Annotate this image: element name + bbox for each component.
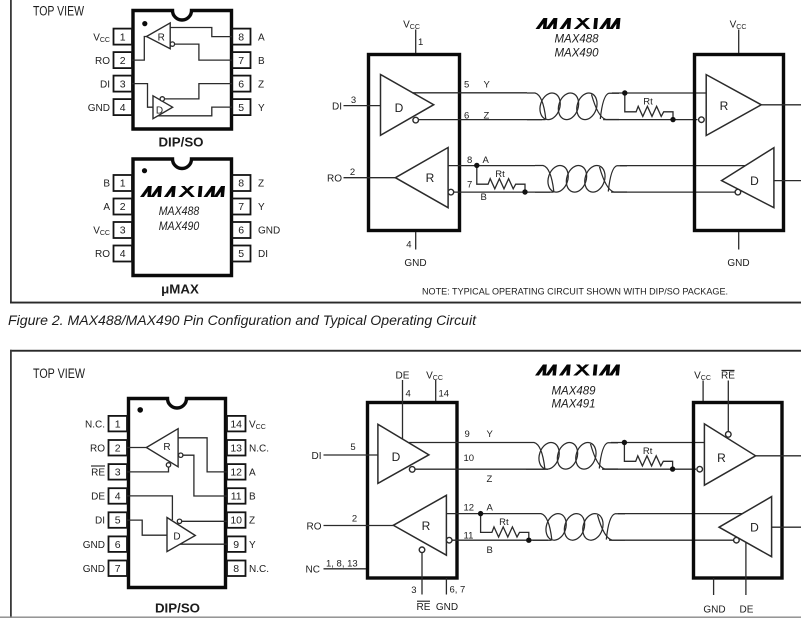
pin 3 box [114,76,133,92]
pin 4 box [114,246,133,262]
svg-text:μMAX: μMAX [161,282,199,297]
svg-text:GND: GND [703,604,725,615]
svg-text:Z: Z [487,474,493,485]
svg-text:VCC: VCC [403,20,420,32]
termination resistor Rt top [622,440,676,472]
IC box left MAX489 [368,403,458,579]
svg-text:RO: RO [90,443,105,454]
wire RO pin2 [127,447,148,449]
RE pin stub [727,381,729,432]
DE pin stub [402,380,404,439]
svg-text:8: 8 [467,155,472,166]
svg-text:DI: DI [100,79,110,90]
svg-text:GND: GND [727,258,749,269]
svg-text:VCC: VCC [426,370,443,382]
svg-text:12: 12 [230,467,242,479]
svg-text:GND: GND [83,540,105,551]
GND pin stub [738,232,740,250]
svg-text:B: B [487,545,493,556]
svg-text:D: D [395,101,404,115]
svg-text:MAX491: MAX491 [552,397,596,411]
svg-text:B: B [481,192,487,203]
wire RO output [344,177,396,179]
svg-text:10: 10 [230,515,242,527]
pin 3 box [109,464,128,480]
wire A left [448,165,535,167]
wire R output [761,104,801,106]
bubble on D output Z [177,519,181,523]
svg-text:GND: GND [83,564,105,575]
wire Y left [412,92,527,94]
svg-text:RO: RO [327,174,342,185]
svg-text:B: B [249,492,256,503]
pin 14 box [227,416,246,432]
RE overline right [722,369,735,371]
bubble on R1 input B [170,42,174,46]
wire Y right [611,442,705,444]
svg-text:MAX488: MAX488 [159,206,200,218]
svg-text:DI: DI [258,249,268,260]
pin 5 box [109,512,128,528]
svg-text:6, 7: 6, 7 [450,584,466,595]
receiver R triangle [393,495,446,555]
svg-text:B: B [258,56,265,67]
bubble on R enable [726,432,732,438]
frame bottom border [10,302,801,304]
svg-text:NC: NC [306,565,320,576]
svg-text:DIP/SO: DIP/SO [155,601,200,616]
svg-text:GND: GND [88,103,110,114]
wire D input [774,180,801,182]
pin-1 index dot [142,168,147,173]
bubble on R input B [179,453,183,457]
termination resistor Rt bottom [474,163,528,195]
pin 6 box [232,76,251,92]
svg-text:7: 7 [238,55,244,67]
svg-text:RO: RO [95,56,110,67]
svg-text:MAX488: MAX488 [555,31,599,45]
MAXIM logo on uMAX [140,186,225,197]
bubble on R input Z [697,466,703,472]
svg-text:N.C.: N.C. [249,564,269,575]
svg-text:N.C.: N.C. [249,443,269,454]
svg-text:Z: Z [258,179,264,190]
wire DE pin4 [127,496,172,520]
svg-text:VCC: VCC [694,371,711,383]
wire A left [446,513,533,515]
svg-text:GND: GND [436,602,458,613]
svg-text:14: 14 [230,418,242,430]
svg-text:6: 6 [115,539,121,551]
twisted pair Y/Z [526,440,618,472]
svg-text:5: 5 [350,442,355,453]
svg-text:R: R [158,32,165,43]
frame top border [10,350,801,352]
svg-text:A: A [258,32,265,43]
frame left border [10,0,12,303]
svg-text:12: 12 [464,503,475,514]
svg-text:1: 1 [418,37,423,48]
pin 9 box [227,536,246,552]
wire B left [452,539,548,541]
receiver R triangle right [704,424,755,485]
svg-text:RO: RO [95,249,110,260]
pin-1 index dot [137,407,143,413]
bubble on D output Z [413,117,419,123]
pin 4 box [109,488,128,504]
svg-text:6: 6 [238,225,244,237]
wire DI input [344,105,381,107]
IC box left MAX488 [369,55,460,231]
svg-text:Y: Y [258,103,265,114]
wire Z left [415,468,548,470]
svg-text:DE: DE [91,492,105,503]
driver D triangle right [722,148,774,208]
IC package U2 uMAX [133,159,232,276]
svg-text:11: 11 [464,531,474,542]
pin 8 box [232,29,251,45]
wire Y left [409,442,526,444]
svg-text:VCC: VCC [93,226,110,238]
svg-text:A: A [487,503,494,514]
VCC pin stub [738,30,740,54]
svg-text:Z: Z [258,79,264,90]
wire A pin8 [170,28,232,37]
wire DI pin5 [127,520,167,535]
pin 3 box [114,222,133,238]
svg-text:7: 7 [467,180,472,191]
svg-text:RE: RE [417,602,431,613]
svg-text:5: 5 [115,515,121,527]
pin 1 box [114,29,133,45]
svg-text:RE: RE [91,468,105,479]
svg-text:9: 9 [465,429,470,440]
svg-text:4: 4 [115,491,121,503]
svg-text:Z: Z [249,516,255,527]
driver D1 triangle [153,96,173,119]
svg-text:1: 1 [120,31,126,43]
pin 2 box [114,52,133,68]
wire NC [324,568,367,570]
VCC pin stub [435,380,437,401]
RE overline [91,465,105,467]
svg-text:Z: Z [484,110,490,121]
driver D triangle right [719,497,772,557]
svg-text:4: 4 [120,102,126,114]
receiver R1 triangle [147,23,171,49]
svg-text:VCC: VCC [730,20,747,32]
VCC pin stub [415,30,417,54]
twisted pair Y/Z [527,90,619,122]
bubble on D output B [734,537,740,543]
RE pin stub [421,553,423,595]
twisted pair A/B [535,163,627,195]
svg-text:5: 5 [238,102,244,114]
bubble on R enable [166,463,170,467]
driver D triangle [167,518,195,552]
pin numbers [115,418,242,575]
svg-text:GND: GND [404,258,426,269]
svg-text:R: R [717,451,726,465]
wire Z pin6 [165,84,233,99]
svg-text:2: 2 [352,513,357,524]
svg-text:3: 3 [120,78,126,90]
wire Z left [419,119,542,121]
pin 1 box [109,416,128,432]
svg-text:8: 8 [233,563,239,575]
wire B left [454,191,550,193]
svg-text:Y: Y [487,429,494,440]
termination resistor Rt bottom [478,511,532,543]
wire RE pin3 [127,467,169,472]
svg-text:2: 2 [120,55,126,67]
frame left border [10,350,12,618]
wire Z right [603,119,697,121]
wire R output [756,455,801,457]
svg-text:3: 3 [351,95,356,106]
svg-text:8: 8 [238,31,244,43]
pin 12 box [227,464,246,480]
wire DI pin3 [132,84,153,108]
svg-text:R: R [422,519,431,533]
wire A pin12 [178,438,227,472]
DE pin stub [745,543,747,596]
svg-text:R: R [426,171,435,185]
driver D triangle [378,424,429,483]
svg-text:1: 1 [120,178,126,190]
svg-text:DIP/SO: DIP/SO [158,134,203,149]
pin 5 box [232,99,251,115]
wire Y pin5 [158,107,232,116]
pin 2 box [114,199,133,215]
pin 6 box [109,536,128,552]
IC box right MAX489 [694,403,783,579]
wire Y right [612,92,706,94]
svg-text:Y: Y [484,79,491,90]
pin 11 box [227,488,246,504]
pin 2 box [109,440,128,456]
svg-text:DI: DI [95,516,105,527]
svg-text:DE: DE [740,604,754,615]
svg-text:Figure 2. MAX488/MAX490 Pin Co: Figure 2. MAX488/MAX490 Pin Configuratio… [8,313,477,328]
svg-text:D: D [173,531,180,542]
svg-text:RE: RE [721,371,735,382]
pin 13 box [227,440,246,456]
svg-text:A: A [483,155,490,166]
pin numbers left [120,31,126,114]
svg-text:1, 8, 13: 1, 8, 13 [326,559,358,570]
pin 5 box [232,246,251,262]
svg-text:VCC: VCC [249,419,266,431]
wire B right [611,191,735,193]
wire A right [618,513,742,515]
svg-text:9: 9 [233,539,239,551]
pin numbers [120,178,245,261]
wire DI input [324,454,378,456]
svg-text:MAX490: MAX490 [159,221,200,233]
MAXIM logo [535,365,620,376]
svg-text:B: B [103,179,110,190]
pin 6 box [232,222,251,238]
bubble on R input Z [699,117,705,123]
pin 7 box [232,52,251,68]
svg-text:DI: DI [332,101,342,112]
svg-text:GND: GND [258,226,280,237]
wire B pin11 [183,455,227,496]
bubble on D1 output Z [160,97,164,101]
svg-text:D: D [750,521,759,535]
svg-text:5: 5 [464,79,469,90]
svg-text:TOP VIEW: TOP VIEW [33,366,85,381]
svg-text:RO: RO [307,521,322,532]
termination resistor Rt top [622,90,676,122]
wire D input [772,526,801,528]
svg-text:3: 3 [115,467,121,479]
svg-text:6: 6 [464,110,469,121]
pin-1 index dot [142,21,147,26]
svg-text:3: 3 [411,585,416,596]
svg-text:4: 4 [406,239,411,250]
svg-text:13: 13 [230,442,242,454]
pin 7 box [109,561,128,577]
svg-text:DE: DE [396,370,410,381]
bubble on R input B [446,537,452,543]
svg-text:7: 7 [238,201,244,213]
frame bottom border [0,617,801,618]
svg-text:Y: Y [258,202,265,213]
svg-text:6: 6 [238,78,244,90]
svg-text:A: A [249,468,256,479]
svg-text:4: 4 [120,248,126,260]
GND pin stub [713,578,715,595]
VCC pin stub [702,381,704,402]
bubble on D output B [735,189,741,195]
svg-text:8: 8 [238,178,244,190]
wire RO output [324,525,394,527]
receiver R triangle [395,148,448,208]
svg-text:1: 1 [115,418,121,430]
driver D triangle [381,75,434,136]
bubble on D output Z [409,467,415,473]
pin 8 box [232,175,251,191]
svg-text:7: 7 [115,563,121,575]
pin numbers right [238,31,244,114]
IC package U1 DIP/SO 8-pin [133,11,232,130]
bubble on R enable [419,547,425,553]
pin 1 box [114,175,133,191]
svg-text:4: 4 [406,388,411,399]
svg-text:5: 5 [238,248,244,260]
pin 10 box [227,512,246,528]
svg-text:N.C.: N.C. [85,419,105,430]
svg-text:2: 2 [350,167,355,178]
twisted pair A/B [533,511,625,543]
svg-text:11: 11 [231,491,242,503]
wire Z right [602,468,696,470]
wire A right [620,165,745,167]
GND pin stub [445,578,447,595]
svg-text:2: 2 [120,201,126,213]
svg-text:3: 3 [120,225,126,237]
svg-text:NOTE: TYPICAL OPERATING CIRCU: NOTE: TYPICAL OPERATING CIRCUIT SHOWN WI… [422,287,728,298]
IC package U3 DIP/SO 14-pin [129,399,226,588]
wire B pin7 [175,44,232,60]
svg-text:Y: Y [249,540,256,551]
RE overline [417,600,430,602]
IC box right MAX488 [695,55,784,231]
svg-text:10: 10 [464,453,475,464]
svg-text:MAX490: MAX490 [555,45,599,59]
svg-text:D: D [156,106,163,117]
wire B right [609,539,734,541]
wire RO pin2 [132,37,148,61]
wire Y pin9 [180,543,227,545]
svg-text:A: A [103,202,110,213]
svg-text:D: D [392,450,401,464]
svg-text:MAX489: MAX489 [552,383,596,397]
bubble on R input B [448,189,454,195]
svg-text:14: 14 [439,388,450,399]
GND pin stub [415,232,417,250]
pin 7 box [232,199,251,215]
svg-text:D: D [750,174,759,188]
MAXIM logo [536,18,621,29]
receiver R triangle right [706,75,761,136]
svg-text:2: 2 [115,442,121,454]
receiver R triangle [146,429,178,467]
svg-text:DI: DI [312,451,322,462]
svg-text:R: R [720,99,729,113]
svg-text:TOP VIEW: TOP VIEW [33,4,84,19]
svg-text:VCC: VCC [93,32,110,44]
wire Z pin10 [182,520,227,522]
pin 8 box [227,561,246,577]
svg-text:R: R [163,442,170,453]
pin 4 box [114,99,133,115]
